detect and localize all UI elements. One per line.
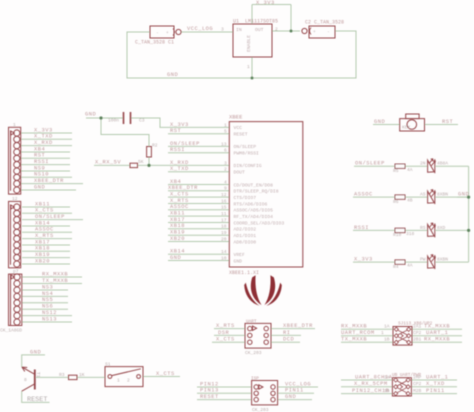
svg-text:R5: R5 [393,168,399,174]
svg-text:VCC_LOG: VCC_LOG [187,26,213,32]
svg-text:ON/SLEEP: ON/SLEEP [234,144,257,150]
svg-text:RST: RST [442,119,453,125]
svg-text:6: 6 [224,148,227,154]
svg-text:LM1117SOT85: LM1117SOT85 [245,19,278,25]
svg-text:-: - [327,30,330,35]
svg-text:ASSOC: ASSOC [354,192,373,198]
svg-text:5K: 5K [138,159,144,165]
svg-text:M2B: M2B [413,388,422,394]
svg-text:VCC: VCC [234,125,243,131]
svg-text:CK_203: CK_203 [252,407,269,412]
svg-text:X_TXD: X_TXD [170,166,189,172]
svg-text:DTR/SLEEP_RQ/DI8: DTR/SLEEP_RQ/DI8 [234,189,279,195]
svg-text:8: 8 [24,377,27,383]
svg-text:3: 3 [224,160,227,166]
svg-text:RTS/AD6/DIO6: RTS/AD6/DIO6 [234,201,268,207]
svg-text:TX_MXXB: TX_MXXB [42,278,68,284]
svg-text:X_3V3: X_3V3 [256,0,275,6]
svg-text:3: 3 [221,27,224,33]
svg-text:14: 14 [221,249,227,255]
svg-text:8XBN: 8XBN [437,192,448,198]
svg-text:XB19: XB19 [170,230,185,236]
svg-text:X_3V3: X_3V3 [34,127,53,133]
svg-text:AD1/DIO1: AD1/DIO1 [234,233,257,239]
svg-text:AD0/DIO0: AD0/DIO0 [234,239,257,245]
svg-text:DOUT: DOUT [234,170,245,176]
svg-text:R3: R3 [59,372,65,378]
svg-text:ASSOC/AD5/DIO5: ASSOC/AD5/DIO5 [234,208,274,214]
svg-text:XBEE_DTR: XBEE_DTR [34,178,64,184]
svg-text:X_RX_5V: X_RX_5V [95,160,121,166]
svg-text:X_CTS: X_CTS [216,337,235,343]
svg-text:RS: RS [420,225,426,231]
svg-text:2MP: 2MP [413,374,422,380]
svg-text:X_TXD: X_TXD [426,381,445,387]
svg-text:PIN13: PIN13 [200,388,219,394]
svg-text:XB19: XB19 [35,252,50,258]
svg-text:OUT: OUT [255,27,264,33]
svg-text:RST: RST [170,128,181,134]
svg-text:XB17: XB17 [170,217,185,223]
svg-text:NS13: NS13 [42,316,57,322]
svg-text:XB11: XB11 [35,201,50,207]
svg-text:19: 19 [221,230,227,236]
svg-text:9: 9 [224,186,227,192]
svg-text:CTS/DIO7: CTS/DIO7 [234,195,257,201]
svg-text:NS9: NS9 [34,165,45,171]
svg-text:CP2: CP2 [413,381,422,387]
svg-text:XBEE_DTR: XBEE_DTR [168,185,198,191]
svg-text:NS4: NS4 [42,291,53,297]
svg-text:X_3V3: X_3V3 [354,257,373,263]
svg-text:1B: 1B [384,337,390,343]
svg-text:RX_MXXB: RX_MXXB [42,271,68,277]
svg-text:GND: GND [458,192,469,198]
svg-text:C_TAN_3528 C1: C_TAN_3528 C1 [135,40,174,46]
svg-text:4B: 4B [407,198,413,204]
svg-text:X_RTS: X_RTS [216,323,235,329]
svg-text:15: 15 [221,205,227,211]
svg-text:CD/DOUT_EN/DO8: CD/DOUT_EN/DO8 [234,182,274,188]
svg-text:PIN11: PIN11 [285,388,304,394]
svg-text:17: 17 [221,217,227,223]
svg-text:2N: 2N [420,161,426,167]
svg-text:GND: GND [85,112,96,118]
svg-text:DSR: DSR [218,330,229,336]
svg-text:XB4: XB4 [34,146,45,152]
svg-text:CK_1A8GD: CK_1A8GD [0,328,22,334]
svg-text:UART_RCOM: UART_RCOM [341,330,375,336]
svg-text:XB4: XB4 [170,179,181,185]
svg-text:DIN/CONFIG: DIN/CONFIG [234,163,262,169]
svg-text:100n: 100n [108,118,119,124]
svg-text:318: 318 [406,231,415,237]
svg-text:R4: R4 [393,264,399,270]
svg-text:NS10: NS10 [34,172,49,178]
svg-text:PWM0/RSSI: PWM0/RSSI [234,151,260,157]
svg-text:IN: IN [236,27,242,33]
svg-text:XBEE_DTR: XBEE_DTR [283,323,313,329]
svg-text:20: 20 [221,236,227,242]
svg-text:ON/SLEEP: ON/SLEEP [355,161,385,167]
svg-text:ISP: ISP [251,377,259,382]
svg-text:1A: 1A [384,374,390,380]
svg-text:VCC_LOG: VCC_LOG [285,381,311,387]
svg-text:R2: R2 [152,143,158,149]
svg-text:UART: UART [246,320,257,325]
svg-text:XB18: XB18 [35,246,50,252]
svg-text:4A: 4A [407,263,413,269]
svg-text:2: 2 [224,167,227,173]
svg-text:T1: T1 [35,372,41,378]
svg-text:XBEE: XBEE [229,114,243,121]
svg-text:UART_1: UART_1 [426,330,448,336]
svg-text:2: 2 [127,378,130,384]
svg-text:RX_MXXB: RX_MXXB [341,324,367,330]
svg-text:VREF: VREF [234,252,245,258]
svg-text:12: 12 [12,196,18,202]
svg-text:X_RTS: X_RTS [35,233,54,239]
svg-text:X_RXD: X_RXD [170,160,189,166]
svg-text:PIN12: PIN12 [200,381,219,387]
svg-text:1: 1 [247,64,250,70]
svg-text:10: 10 [221,255,227,261]
svg-text:X_TXD: X_TXD [34,134,53,140]
svg-text:XB18: XB18 [170,223,185,229]
svg-text:2B1: 2B1 [413,337,422,343]
svg-text:X_CTS: X_CTS [35,208,54,214]
svg-text:COORD_SEL/AD3/DIO3: COORD_SEL/AD3/DIO3 [234,220,285,226]
svg-text:XB11: XB11 [170,211,185,217]
svg-text:4: 4 [224,179,227,185]
svg-text:1: 1 [224,122,227,128]
svg-text:GND: GND [234,258,243,264]
svg-text:NS3: NS3 [42,284,53,290]
svg-text:ON/SLEEP: ON/SLEEP [170,141,200,147]
svg-text:RSSI: RSSI [170,147,185,153]
svg-text:RSSI: RSSI [34,159,49,165]
svg-text:+: + [166,31,169,36]
svg-text:XBEE1.1.XI: XBEE1.1.XI [229,270,259,276]
svg-text:2A1: 2A1 [413,324,422,330]
svg-text:DCD: DCD [283,337,294,343]
svg-text:PIN11: PIN11 [426,388,445,394]
svg-text:X_CTS: X_CTS [156,371,175,377]
svg-text:12: 12 [221,192,227,198]
svg-text:1: 1 [13,122,16,128]
svg-text:PW: PW [420,257,426,263]
svg-text:CP2: CP2 [413,330,422,336]
svg-text:4B8A: 4B8A [437,161,448,167]
svg-text:GND: GND [30,349,41,355]
svg-text:KEY: KEY [402,125,411,131]
svg-text:S1: S1 [105,362,111,368]
svg-text:X_3V3: X_3V3 [170,122,189,128]
svg-text:2: 2 [275,27,278,33]
svg-text:NS6: NS6 [42,304,53,310]
svg-text:NS12: NS12 [42,310,57,316]
svg-text:C3: C3 [139,118,145,124]
svg-text:GND: GND [285,394,296,400]
svg-text:GND: GND [34,184,45,190]
svg-text:8XBN: 8XBN [437,257,448,263]
svg-text:RESET: RESET [27,396,47,404]
svg-text:RESET: RESET [200,394,219,400]
svg-text:CK_203: CK_203 [245,350,262,356]
svg-text:RI: RI [283,330,290,336]
svg-text:p7: p7 [13,269,19,275]
svg-text:U1: U1 [233,19,239,25]
svg-text:XB17: XB17 [35,239,50,245]
svg-text:GND: GND [170,255,181,261]
svg-text:X_RX_5CPM: X_RX_5CPM [354,381,388,387]
svg-text:AS: AS [420,192,426,198]
svg-text:RESET: RESET [234,132,248,138]
svg-text:ASSOC: ASSOC [35,227,54,233]
svg-text:NS5: NS5 [42,297,53,303]
svg-text:13: 13 [221,141,227,147]
svg-text:16: 16 [221,198,227,204]
svg-text:-: - [156,31,159,36]
svg-text:RSSI: RSSI [354,225,369,231]
svg-text:1: 1 [117,378,120,384]
svg-text:XB14: XB14 [170,249,185,255]
svg-text:ON/SLEEP: ON/SLEEP [35,214,65,220]
svg-text:11: 11 [221,211,227,217]
svg-text:GND: GND [374,119,385,125]
svg-text:X_CTS: X_CTS [170,192,189,198]
svg-text:RST: RST [34,153,45,159]
svg-text:X_RXD: X_RXD [34,140,53,146]
svg-text:RX_MXXB: RX_MXXB [424,337,450,343]
svg-text:XB20: XB20 [35,258,50,264]
svg-text:X_RTS: X_RTS [170,198,189,204]
svg-text:C2 C_TAN_3528: C2 C_TAN_3528 [305,20,344,26]
svg-text:1B: 1B [384,388,390,394]
svg-text:R6: R6 [393,199,399,205]
svg-text:+: + [313,30,316,35]
svg-text:XB20: XB20 [170,236,185,242]
svg-text:R10: R10 [393,232,402,238]
svg-text:RF_TX/AD4/DIO4: RF_TX/AD4/DIO4 [234,214,274,220]
svg-text:TX_MXXB: TX_MXXB [341,337,367,343]
svg-text:8XD: 8XD [437,225,446,231]
svg-text:ASSOC: ASSOC [170,204,189,210]
svg-text:5: 5 [224,129,227,135]
svg-text:1: 1 [381,330,384,336]
svg-text:GND: GND [167,72,178,78]
svg-text:XB14: XB14 [35,220,50,226]
svg-text:4A: 4A [407,167,413,173]
svg-text:1K: 1K [79,372,85,378]
svg-text:ENABLE: ENABLE [246,35,252,52]
svg-text:1A: 1A [384,324,390,330]
svg-text:UART_1: UART_1 [426,374,448,380]
svg-text:18: 18 [221,224,227,230]
svg-text:AD2/DIO2: AD2/DIO2 [234,227,257,233]
